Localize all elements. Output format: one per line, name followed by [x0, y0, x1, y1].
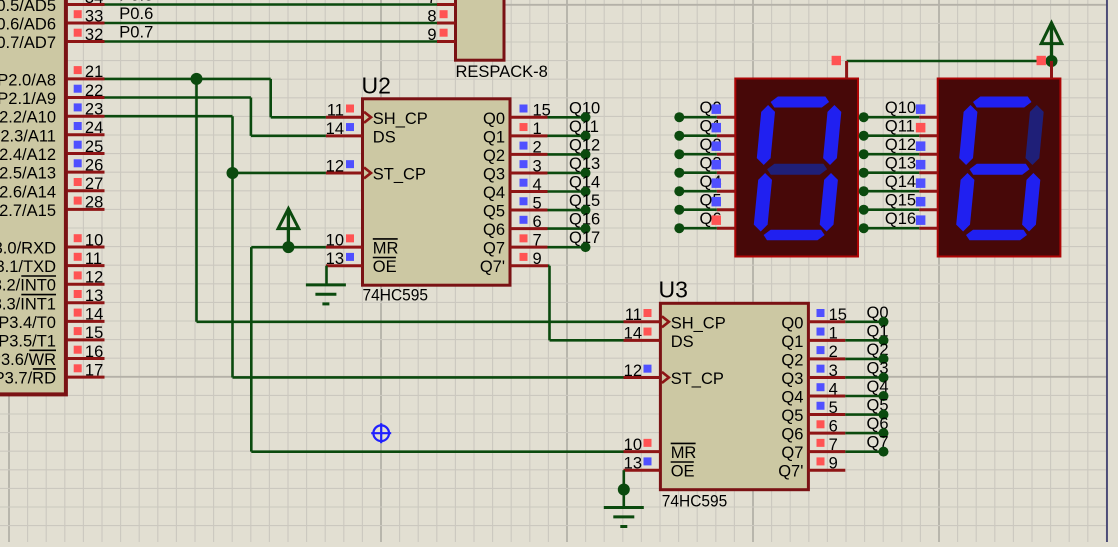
7-segment display DS1 (left, showing 0) pin state square Q5 — [712, 197, 722, 207]
U3 pin 11 number + state square — [625, 306, 652, 324]
U3 pin 14 number + state square — [624, 325, 652, 343]
chip pin 11 stub — [67, 264, 104, 267]
svg-text:4: 4 — [829, 380, 838, 398]
sheet border — [1106, 0, 1108, 542]
net Q3 terminal dot — [674, 168, 684, 178]
svg-text:0.7/AD7: 0.7/AD7 — [0, 34, 56, 52]
svg-text:OE: OE — [671, 463, 695, 481]
svg-text:21: 21 — [85, 63, 103, 81]
U3 pin 11 clock chevron — [662, 316, 669, 327]
svg-text:Q2: Q2 — [781, 351, 803, 369]
7-segment display DS1 (left, showing 0) segment pin wire Q3 — [679, 171, 735, 174]
pin 32 number + state square — [74, 26, 104, 44]
net Q6 terminal dot — [879, 428, 889, 438]
svg-text:5: 5 — [829, 399, 838, 417]
svg-text:12: 12 — [85, 269, 103, 287]
net Q12 terminal dot — [581, 149, 591, 159]
pin label P3.4/T0 — [0, 314, 56, 332]
7-segment display DS1 (left, showing 0) segment A (lit) — [771, 97, 830, 108]
svg-text:15: 15 — [85, 324, 103, 342]
U2 pin 3 Q3 stub — [510, 171, 548, 174]
7-segment display DS2 (right, showing 6) segment F (lit) — [959, 105, 977, 165]
7-segment display DS1 (left, showing 0) segment pin wire Q0 — [679, 116, 735, 119]
svg-text:26: 26 — [85, 156, 103, 174]
chip pin 16 stub — [67, 357, 104, 360]
pin label P3.5/T1 — [0, 332, 56, 350]
svg-text:13: 13 — [624, 455, 642, 473]
svg-text:1: 1 — [829, 325, 838, 343]
resistor pack RP1 RESPACK-8 body — [456, 0, 505, 60]
svg-text:14: 14 — [85, 306, 103, 324]
svg-text:Q3: Q3 — [483, 165, 505, 183]
svg-text:P0.6: P0.6 — [119, 5, 153, 23]
U2 pin 15 Q0 stub — [510, 116, 548, 119]
wire VCC to display commons — [847, 60, 1052, 63]
U3 pin 9 Q7' stub — [808, 469, 845, 472]
pin 33 number + state square — [74, 7, 104, 25]
pin label P2.5/A13 — [0, 165, 56, 183]
pin 23 number + state square — [74, 101, 104, 119]
svg-text:12: 12 — [326, 157, 344, 175]
pin label P3.0/RXD — [0, 240, 56, 258]
U2 pin 12 clock chevron — [364, 167, 371, 178]
svg-text:DS: DS — [671, 333, 694, 351]
wire P2.0/A8 from pin 21 — [105, 78, 271, 81]
wire U3 OE to ground — [622, 470, 625, 507]
pin 14 number + state square — [74, 306, 104, 324]
U2 pin 2 number + state square — [520, 139, 542, 157]
svg-text:P3.1/TXD: P3.1/TXD — [0, 258, 56, 276]
7-segment display DS1 (left, showing 0) segment D (lit) — [764, 230, 825, 240]
junction node SH_CP net — [191, 73, 203, 85]
7-segment display DS1 (left, showing 0) pin state square Q6 — [712, 215, 722, 225]
svg-text:P2.1/A9: P2.1/A9 — [0, 90, 56, 108]
svg-text:5: 5 — [533, 194, 542, 212]
pin 10 number + state square — [74, 231, 104, 249]
net Q1 terminal dot — [674, 131, 684, 141]
svg-text:P2.2/A10: P2.2/A10 — [0, 109, 56, 127]
chip pin 15 stub — [67, 338, 104, 341]
svg-text:Q6: Q6 — [483, 221, 505, 239]
U2 pin 9 number + state square — [520, 250, 542, 268]
7-segment display DS1 (left, showing 0) segment pin wire Q1 — [679, 134, 735, 137]
svg-text:DS: DS — [373, 128, 396, 146]
U3 pin 10 number + state square — [624, 436, 652, 454]
pin 16 number + state square — [74, 343, 104, 361]
svg-text:74HC595: 74HC595 — [363, 286, 429, 305]
svg-text:Q4: Q4 — [781, 389, 803, 407]
svg-text:6: 6 — [829, 417, 838, 435]
U2 pin name DS — [373, 128, 396, 146]
svg-text:Q4: Q4 — [483, 184, 505, 202]
7-segment display DS2 (right, showing 6) segment pin wire Q10 — [864, 116, 938, 119]
pin 27 number + state square — [74, 175, 104, 193]
svg-text:OE: OE — [373, 258, 397, 276]
7-segment display DS1 (left, showing 0) pin state square Q3 — [712, 160, 722, 170]
wire net Q15 from U2 Q5 — [548, 209, 586, 212]
svg-text:SH_CP: SH_CP — [671, 314, 726, 332]
RESPACK pin 8 stub — [437, 22, 456, 25]
pin label P3.6/WR — [0, 350, 56, 369]
svg-text:22: 22 — [85, 82, 103, 100]
wire SH_CP down to U2 — [271, 79, 326, 117]
net Q4 terminal dot — [674, 186, 684, 196]
wire net Q13 from U2 Q3 — [548, 172, 586, 175]
shift register U3 74HC595 body — [660, 303, 808, 489]
svg-text:Q0: Q0 — [483, 110, 505, 128]
net Q12 terminal dot — [859, 149, 869, 159]
U3 pin name ST_CP — [671, 370, 724, 388]
net Q4 terminal dot — [879, 391, 889, 401]
net Q7 terminal dot — [879, 447, 889, 457]
svg-text:34: 34 — [85, 0, 103, 7]
svg-text:Q12: Q12 — [885, 136, 916, 154]
svg-text:P3.5/T1: P3.5/T1 — [0, 332, 56, 350]
svg-text:Q11: Q11 — [885, 118, 915, 136]
chip pin 23 stub — [67, 115, 104, 118]
wire net Q16 from U2 Q6 — [548, 227, 586, 230]
7-segment display DS2 (right, showing 6) segment pin wire Q12 — [864, 153, 938, 156]
svg-text:SH_CP: SH_CP — [373, 110, 428, 128]
svg-text:Q3: Q3 — [781, 370, 803, 388]
U2 pin 14 number + state square — [326, 120, 354, 138]
7-segment display DS2 (right, showing 6) common pin state square — [1037, 56, 1046, 65]
wire U2 OE to ground — [325, 266, 328, 285]
svg-text:3: 3 — [533, 157, 542, 175]
svg-text:9: 9 — [829, 455, 838, 473]
svg-text:27: 27 — [85, 175, 103, 193]
svg-text:2: 2 — [533, 139, 542, 157]
U2 pin 2 Q2 stub — [510, 153, 548, 156]
junction node VCC at display DS2 — [1046, 55, 1058, 67]
U2 pin 5 number + state square — [520, 194, 542, 212]
svg-text:U2: U2 — [362, 73, 391, 99]
junction node U3 OE/GND — [618, 484, 630, 496]
pin label P2.7/A15 — [0, 202, 56, 220]
U3 pin 15 number + state square — [817, 306, 847, 324]
svg-text:P3.7/RD: P3.7/RD — [0, 370, 56, 388]
wire net Q5 from U3 Q5 — [845, 413, 883, 416]
U3 pin 2 Q2 stub — [808, 357, 845, 360]
wire net Q6 from U3 Q6 — [845, 432, 883, 435]
U2 pin 13 number + state square — [326, 250, 354, 268]
7-segment display DS2 (right, showing 6) pin state square Q12 — [916, 141, 926, 151]
wire net Q10 from U2 Q0 — [548, 116, 586, 119]
wire net Q11 from U2 Q1 — [548, 135, 586, 138]
microcontroller U1 body (left edge, 8051 ports) — [0, 0, 66, 394]
svg-text:16: 16 — [85, 343, 103, 361]
7-segment display DS1 (left, showing 0) pin state square Q1 — [712, 123, 722, 132]
wire P2.2/A10 from pin 23 (ST_CP net) — [105, 116, 624, 377]
svg-text:7: 7 — [829, 436, 838, 454]
svg-text:P2.3/A11: P2.3/A11 — [0, 127, 56, 145]
U2 pin name SH_CP — [373, 110, 428, 128]
net Q2 terminal dot — [674, 149, 684, 159]
net Q6 terminal dot — [674, 223, 684, 233]
pin 26 number + state square — [74, 156, 104, 174]
net Q10 terminal dot — [581, 112, 591, 122]
U2 pin 1 Q1 stub — [510, 134, 548, 137]
svg-text:15: 15 — [829, 306, 847, 324]
svg-text:Q7: Q7 — [781, 444, 803, 462]
svg-text:10: 10 — [624, 436, 642, 454]
7-segment display DS1 (left, showing 0) pin state square Q0 — [712, 104, 722, 114]
pin label P2.0/A8 — [0, 71, 56, 89]
pin 17 number + state square — [74, 361, 104, 379]
pin 34 number + state square — [85, 0, 103, 7]
U2 pin 10 MR stub — [326, 246, 363, 249]
RESPACK pin 7 stub — [437, 3, 456, 6]
pin label P2.3/A11 — [0, 127, 56, 145]
U3 pin 4 Q4 stub — [808, 395, 845, 398]
net Q13 terminal dot — [859, 168, 869, 178]
7-segment display DS2 (right, showing 6) segment C (lit) — [1022, 173, 1040, 232]
svg-text:9: 9 — [533, 250, 542, 268]
svg-text:Q5: Q5 — [781, 407, 803, 425]
svg-text:6: 6 — [533, 213, 542, 231]
svg-text:Q16: Q16 — [885, 210, 916, 228]
7-segment display DS2 (right, showing 6) segment pin wire Q11 — [864, 134, 938, 137]
net Q14 terminal dot — [859, 186, 869, 196]
7-segment display DS1 (left, showing 0) segment G (unlit) — [767, 164, 827, 175]
U2 pin 13 OE stub — [326, 264, 363, 267]
ground below U3 OE — [604, 508, 644, 527]
wire net P0.6 from chip to RESPACK — [105, 22, 438, 25]
svg-text:Q5: Q5 — [483, 203, 505, 221]
svg-text:P2.7/A15: P2.7/A15 — [0, 202, 56, 220]
ground below U2 OE — [306, 285, 346, 304]
svg-text:14: 14 — [624, 325, 642, 343]
svg-text:Q7: Q7 — [483, 240, 505, 258]
U3 pin 3 number + state square — [817, 362, 838, 380]
svg-text:11: 11 — [625, 306, 642, 324]
wire P2.1/A9 from pin 22 to U2 DS — [105, 98, 326, 136]
pin label P2.4/A12 — [0, 146, 56, 164]
svg-text:ST_CP: ST_CP — [373, 165, 426, 183]
svg-text:MR: MR — [671, 444, 697, 462]
net Q2 terminal dot — [879, 354, 889, 364]
7-segment display DS2 (right, showing 6) pin state square Q15 — [916, 197, 926, 207]
svg-text:0.6/AD6: 0.6/AD6 — [0, 16, 56, 34]
svg-text:11: 11 — [327, 102, 344, 120]
chip pin 24 stub — [67, 133, 104, 136]
chip pin 27 stub — [67, 189, 104, 192]
wire net Q0 from U3 Q0 — [845, 320, 883, 323]
svg-text:2: 2 — [829, 343, 838, 361]
U2 pin 15 number + state square — [520, 102, 551, 120]
chip pin 21 stub — [67, 77, 104, 80]
net Q1 terminal dot — [879, 335, 889, 345]
7-segment display DS1 (left, showing 0) segment pin wire Q5 — [679, 208, 735, 211]
7-segment display DS1 (left, showing 0) segment pin wire Q4 — [679, 190, 735, 193]
wire net P0.7 from chip to RESPACK — [105, 40, 438, 43]
U2 pin 5 Q5 stub — [510, 209, 548, 212]
pin 22 number + state square — [74, 82, 104, 100]
U3 pin 9 number + state square — [817, 455, 838, 473]
net Q10 terminal dot — [859, 112, 869, 122]
svg-text:Q0: Q0 — [781, 314, 803, 332]
wire net Q14 from U2 Q4 — [548, 190, 586, 193]
U2 pin name MR — [373, 239, 399, 258]
shift register U2 74HC595 body — [363, 99, 511, 285]
svg-text:P3.3/INT1: P3.3/INT1 — [0, 295, 56, 313]
svg-text:74HC595: 74HC595 — [662, 492, 728, 511]
7-segment display DS1 (left, showing 0) segment F (lit) — [757, 105, 775, 165]
U3 pin 1 Q1 stub — [808, 339, 845, 342]
7-segment display DS1 (left, showing 0) common pin stub — [845, 61, 848, 79]
pin 24 number + state square — [74, 119, 104, 137]
pin 12 number + state square — [74, 269, 104, 287]
svg-text:P2.0/A8: P2.0/A8 — [0, 71, 56, 89]
svg-text:15: 15 — [533, 102, 551, 120]
U2 pin 6 number + state square — [520, 213, 542, 231]
U3 pin 13 number + state square — [624, 455, 652, 473]
7-segment display DS1 (left, showing 0) segment B (lit) — [823, 105, 841, 165]
U3 pin 3 Q3 stub — [808, 376, 845, 379]
U2 pin 11 clock chevron — [364, 112, 371, 123]
7-segment display DS2 (right, showing 6) common pin stub — [1050, 61, 1053, 79]
7-segment display DS2 (right, showing 6) pin state square Q10 — [916, 104, 926, 114]
U3 pin 5 number + state square — [817, 399, 838, 417]
net Q5 terminal dot — [879, 410, 889, 420]
svg-text:13: 13 — [85, 287, 103, 305]
svg-text:24: 24 — [85, 119, 103, 137]
7-segment display DS2 (right, showing 6) pin state square Q11 — [916, 123, 926, 132]
7-segment display DS2 (right, showing 6) segment A (lit) — [973, 97, 1032, 108]
chip pin 12 stub — [67, 283, 104, 286]
7-segment display DS2 (right, showing 6) segment pin wire Q16 — [864, 227, 938, 230]
net Q15 terminal dot — [859, 205, 869, 215]
chip pin 13 stub — [67, 301, 104, 304]
chip pin 26 stub — [67, 171, 104, 174]
7-segment display DS1 (left, showing 0) segment pin wire Q6 — [679, 227, 735, 230]
svg-text:12: 12 — [624, 362, 642, 380]
net Q11 terminal dot — [859, 131, 869, 141]
7-segment display DS2 (right, showing 6) segment G (lit) — [970, 164, 1030, 175]
svg-text:23: 23 — [85, 101, 103, 119]
7-segment display DS1 (left, showing 0) segment C (lit) — [820, 173, 838, 232]
pin label P3.2/INT0 — [0, 276, 56, 295]
pin 13 number + state square — [74, 287, 104, 305]
U2 pin 1 number + state square — [520, 120, 542, 138]
svg-text:11: 11 — [85, 250, 102, 268]
U3 pin 1 number + state square — [817, 325, 838, 343]
junction node ST_CP net — [227, 167, 239, 179]
7-segment display DS2 (right, showing 6) segment pin wire Q15 — [864, 208, 938, 211]
svg-text:P0.7: P0.7 — [119, 24, 153, 42]
power VCC arrow at U2 MR — [278, 209, 299, 248]
U2 pin 10 number + state square — [326, 231, 354, 249]
chip pin 22 stub — [67, 96, 104, 99]
wire net P0.5 from chip to RESPACK — [105, 3, 438, 6]
U3 pin 13 OE stub — [624, 469, 661, 472]
U2 pin 11 number + state square — [327, 102, 354, 120]
U3 pin 2 number + state square — [817, 343, 838, 361]
U2 pin 6 Q6 stub — [510, 227, 548, 230]
net Q0 terminal dot — [879, 317, 889, 327]
U2 pin 14 DS stub — [326, 134, 363, 137]
7-segment display DS1 (left, showing 0) segment pin wire Q2 — [679, 153, 735, 156]
origin marker — [371, 423, 391, 443]
svg-text:7: 7 — [533, 231, 542, 249]
U2 pin 4 Q4 stub — [510, 190, 548, 193]
svg-text:RESPACK-8: RESPACK-8 — [456, 63, 548, 81]
chip pin 10 stub — [67, 246, 104, 249]
7-segment display DS2 (right, showing 6) segment pin wire Q14 — [864, 190, 938, 193]
U3 pin 6 number + state square — [817, 417, 838, 435]
wire net Q17 from U2 Q7 — [548, 246, 586, 249]
svg-text:P3.0/RXD: P3.0/RXD — [0, 240, 56, 258]
U2 pin name ST_CP — [373, 165, 426, 183]
U2 pin 7 number + state square — [520, 231, 542, 249]
chip pin 14 stub — [67, 320, 104, 323]
pin 28 number + state square — [74, 194, 104, 212]
net Q0 terminal dot — [674, 112, 684, 122]
svg-text:Q1: Q1 — [781, 333, 803, 351]
U3 pin 4 number + state square — [817, 380, 838, 398]
wire net Q12 from U2 Q2 — [548, 153, 586, 156]
pin label P3.3/INT1 — [0, 295, 56, 314]
chip pin 17 stub — [67, 376, 104, 379]
7-segment display DS1 (left, showing 0) pin state square Q2 — [712, 141, 722, 151]
pin label P2.2/A10 — [0, 109, 56, 127]
svg-text:25: 25 — [85, 138, 103, 156]
net Q16 terminal dot — [581, 224, 591, 234]
pin 21 number + state square — [74, 63, 104, 81]
svg-text:Q1: Q1 — [483, 128, 505, 146]
svg-text:Q14: Q14 — [885, 173, 916, 191]
svg-text:32: 32 — [85, 26, 103, 44]
net Q17 terminal dot — [581, 242, 591, 252]
chip pin 28 stub — [67, 208, 104, 211]
wire MR net U2 to U3 — [251, 247, 623, 452]
power VCC arrow top right — [1041, 23, 1062, 61]
pin label P3.7/RD — [0, 369, 56, 388]
svg-text:U3: U3 — [659, 277, 688, 303]
U2 pin 9 Q7' stub — [510, 264, 548, 267]
U3 pin 14 DS stub — [624, 339, 661, 342]
U3 pin name MR — [671, 443, 697, 462]
net Q13 terminal dot — [581, 168, 591, 178]
pin label P3.1/TXD — [0, 258, 56, 276]
svg-text:10: 10 — [326, 231, 344, 249]
svg-text:Q6: Q6 — [781, 426, 803, 444]
svg-text:10: 10 — [85, 231, 103, 249]
svg-text:28: 28 — [85, 194, 103, 212]
wire net Q2 from U3 Q2 — [845, 358, 883, 361]
RESPACK pin 8 number + state square — [427, 7, 447, 25]
wire net Q4 from U3 Q4 — [845, 395, 883, 398]
svg-text:P2.5/A13: P2.5/A13 — [0, 165, 56, 183]
U2 pin 12 ST_CP stub — [326, 171, 363, 174]
svg-text:1: 1 — [533, 120, 542, 138]
svg-text:Q13: Q13 — [885, 155, 916, 173]
7-segment display DS2 (right, showing 6) body — [938, 79, 1061, 257]
wire U2 Q7' to U3 DS (cascade) — [548, 266, 624, 341]
svg-text:0.5/AD5: 0.5/AD5 — [0, 0, 56, 15]
svg-text:13: 13 — [326, 250, 344, 268]
7-segment display DS2 (right, showing 6) segment E (lit) — [956, 173, 974, 232]
svg-text:14: 14 — [326, 120, 344, 138]
pin label P2.6/A14 — [0, 183, 56, 201]
RESPACK pin 7 number + state square — [427, 0, 436, 7]
7-segment display DS1 (left, showing 0) common pin state square — [832, 56, 841, 65]
7-segment display DS1 (left, showing 0) body — [735, 79, 858, 257]
svg-text:Q7': Q7' — [778, 463, 803, 481]
pin label P2.1/A9 — [0, 90, 56, 108]
7-segment display DS2 (right, showing 6) segment B (unlit) — [1026, 105, 1044, 165]
net Q11 terminal dot — [581, 131, 591, 141]
